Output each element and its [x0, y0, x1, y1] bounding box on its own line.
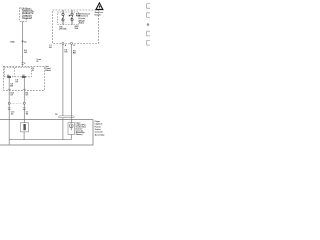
body box name text (outside right) — [95, 120, 106, 136]
fuse F2 — [62, 10, 64, 25]
svg-text:Cigar: Cigar — [95, 120, 101, 123]
svg-text:P4: P4 — [55, 113, 57, 116]
pin P2 circle under underhood box — [71, 42, 73, 44]
svg-text:Outlet: Outlet — [95, 128, 101, 131]
underhood box name text — [79, 13, 90, 24]
pin ticks at box bottom edge crossings — [8, 88, 26, 90]
svg-text:Side): Side) — [79, 23, 84, 25]
connector label wire A — [11, 112, 14, 116]
svg-text:B1: B1 — [22, 75, 24, 77]
element E2 (cigar lighter element) — [68, 123, 75, 135]
svg-text:OG: OG — [64, 52, 68, 54]
wire A (left) down to body box — [8, 78, 10, 120]
wire A label — [10, 84, 13, 88]
connector label wire B — [26, 112, 29, 116]
ui toolbar button 3 — [146, 31, 152, 36]
wire 2 from fuse F3 down — [71, 45, 73, 123]
inline connector on wire B — [23, 108, 26, 110]
svg-text:Assembly: Assembly — [95, 133, 106, 136]
wire 1 continues into body box — [62, 118, 64, 140]
inner fuse sub-box — [58, 12, 79, 25]
terminal B — [22, 76, 26, 78]
fuse F1 dashed box (top-left fuse holder) — [20, 8, 27, 21]
svg-text:LTR 15A: LTR 15A — [59, 28, 67, 31]
svg-text:Lighter/: Lighter/ — [95, 123, 103, 126]
wire 1 from fuse F2 down — [62, 45, 64, 116]
inline connector on wire A — [8, 108, 11, 110]
wire from F1 down to IP connector box — [22, 21, 24, 66]
warning note text — [95, 12, 103, 16]
svg-text:Block: Block — [45, 70, 51, 72]
body box (bottom solid box, cut off at left image edge) — [0, 120, 93, 145]
splice ring on wire B — [23, 102, 25, 104]
svg-text:Compartmt: Compartmt — [22, 17, 32, 20]
ui toolbar button 2 — [146, 13, 152, 18]
E2 bottom lead — [70, 135, 72, 140]
faint note above top edge — [37, 59, 42, 63]
underhood electrical center (top dashed box) — [53, 10, 99, 44]
warning triangle W1 — [95, 2, 104, 10]
connector block (middle-left outer dashed box) — [4, 66, 45, 90]
fuse F3 — [71, 10, 73, 25]
wire A continues inside box to bottom edge — [8, 120, 10, 145]
pin P1 circle under underhood box — [62, 42, 64, 44]
wire B label — [15, 80, 18, 84]
ui toolbar separator dot — [147, 23, 150, 26]
wire B (right) down to element R1 — [23, 78, 25, 123]
svg-text:A1: A1 — [7, 74, 9, 77]
fuse F3 name (inside sub-box) — [76, 13, 81, 18]
splice ring on wire A — [8, 102, 10, 104]
sub-box label — [32, 68, 34, 72]
ui toolbar button 1 (cut off at right edge) — [146, 4, 152, 9]
svg-text:G2: G2 — [11, 114, 14, 116]
svg-text:OG: OG — [24, 52, 28, 54]
svg-text:S365: S365 — [10, 41, 14, 43]
element E2 label text — [76, 123, 87, 136]
ui toolbar button 4 — [146, 40, 152, 45]
fuse F1 label text — [22, 8, 35, 20]
wire 2 label — [73, 51, 77, 55]
svg-text:X1: X1 — [32, 70, 34, 72]
svg-text:8: 8 — [24, 63, 25, 65]
bottom wire run — [9, 139, 71, 141]
inner connector sub-box — [4, 68, 31, 77]
wire label 5 BK — [24, 50, 28, 54]
R1 bottom lead — [23, 132, 25, 140]
connector label under box bottom-left — [49, 45, 51, 49]
terminal A — [7, 76, 11, 78]
fuse F2 label — [59, 26, 67, 30]
svg-text:Power: Power — [95, 125, 101, 128]
svg-text:Console: Console — [95, 132, 104, 134]
svg-text:Shown): Shown) — [76, 134, 83, 136]
svg-text:B2: B2 — [49, 47, 51, 49]
fuse F3 label — [75, 25, 80, 30]
arrow to fuse F3 — [69, 15, 71, 17]
inline pass-through connector C100 — [58, 116, 74, 118]
splice S1 — [22, 40, 24, 42]
box name label (outside right) — [45, 65, 51, 72]
element R1 (left, heater element) — [21, 123, 29, 132]
pin label wire A — [10, 91, 13, 96]
svg-text:Details: Details — [95, 13, 101, 16]
dotted tie line between rings — [10, 102, 23, 104]
wire 1 label — [64, 49, 68, 53]
pin label wire B — [26, 92, 29, 96]
pin 8 mark on wire at connector entry — [21, 62, 24, 64]
